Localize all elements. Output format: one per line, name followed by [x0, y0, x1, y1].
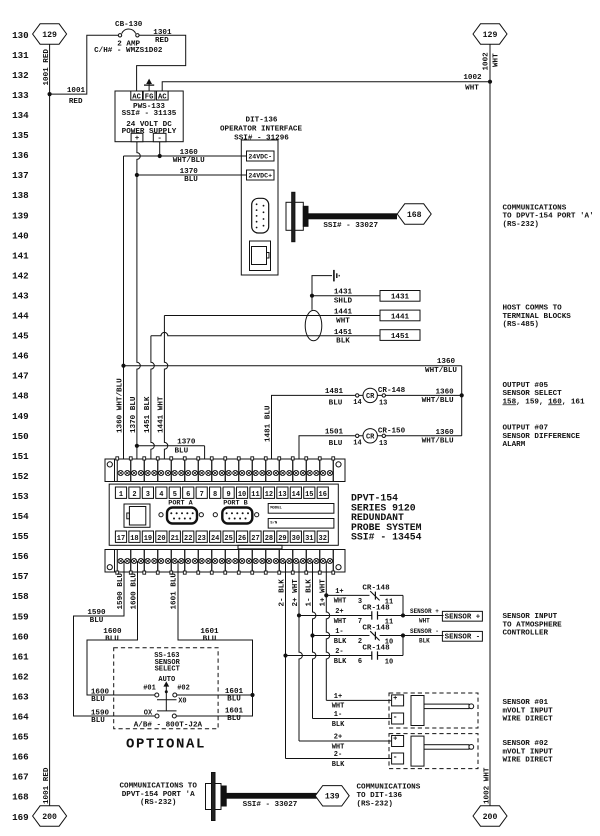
off-page reference hexagon 129 (top left) — [33, 24, 67, 44]
svg-text:4: 4 — [159, 491, 163, 499]
svg-text:145: 145 — [12, 331, 29, 342]
svg-text:CR-148: CR-148 — [362, 625, 390, 633]
terminal strip top (field wiring terminals 1-16) — [105, 459, 345, 482]
svg-text:-: - — [393, 713, 398, 722]
svg-text:CR-150: CR-150 — [378, 427, 406, 435]
svg-text:OPTIONAL: OPTIONAL — [126, 737, 206, 753]
svg-text:COMMUNICATIONS TO: COMMUNICATIONS TO — [119, 782, 197, 790]
svg-text:SSI# - 33027: SSI# - 33027 — [243, 801, 298, 809]
svg-text:167: 167 — [12, 772, 29, 783]
svg-text:158, 159, 160, 161: 158, 159, 160, 161 — [503, 398, 585, 406]
svg-text:SENSOR -: SENSOR - — [410, 628, 439, 635]
svg-text:RED: RED — [69, 98, 83, 106]
sensor #01 probe (mVolt wire direct) — [389, 693, 478, 728]
svg-text:1+: 1+ — [335, 588, 343, 596]
svg-text:1441: 1441 — [334, 309, 353, 317]
redundant probe system DPVT-154 outline — [109, 484, 338, 545]
svg-text:CB-130: CB-130 — [115, 21, 143, 29]
svg-text:BLK: BLK — [419, 637, 430, 644]
svg-text:A/B# - 800T-J2A: A/B# - 800T-J2A — [134, 721, 203, 729]
svg-text:BLK: BLK — [336, 338, 350, 346]
svg-text:CR-148: CR-148 — [378, 387, 406, 395]
svg-text:COMMUNICATIONS: COMMUNICATIONS — [357, 784, 421, 792]
svg-text:1431: 1431 — [334, 289, 353, 297]
svg-text:1002: 1002 — [482, 52, 490, 71]
svg-text:10: 10 — [385, 658, 393, 666]
svg-text:TO DIT-136: TO DIT-136 — [357, 792, 403, 800]
svg-text:(RS-232): (RS-232) — [503, 221, 539, 229]
svg-text:SENSOR #02: SENSOR #02 — [503, 740, 549, 748]
wire 1- BLK from terminal 31 (hops rungs 159,161) — [313, 561, 316, 719]
svg-text:161: 161 — [12, 651, 29, 662]
svg-text:CR: CR — [366, 433, 375, 441]
svg-text:BLU: BLU — [227, 715, 241, 723]
svg-text:2-: 2- — [334, 751, 342, 759]
terminal strip bottom (field wiring terminals 17-32) — [105, 550, 345, 573]
svg-text:14: 14 — [353, 440, 361, 448]
svg-text:136: 136 — [12, 150, 29, 161]
svg-text:25: 25 — [224, 535, 232, 543]
svg-text:1-: 1- — [334, 711, 342, 719]
chassis ground symbol — [333, 270, 335, 282]
svg-text:7: 7 — [200, 491, 204, 499]
svg-text:SENSOR INPUT: SENSOR INPUT — [503, 613, 558, 621]
DB9 port on DIT-136 — [252, 198, 269, 233]
svg-text:SSI# - 31135: SSI# - 31135 — [122, 110, 177, 118]
svg-text:1301: 1301 — [153, 29, 172, 37]
model nameplate box — [268, 504, 334, 514]
svg-text:20: 20 — [157, 535, 165, 543]
svg-text:169: 169 — [12, 812, 29, 823]
svg-text:144: 144 — [12, 311, 29, 322]
terminal FG of PWS-133 — [143, 91, 155, 100]
wire 1481 BLU from terminal 12 to relay CR-148 coil — [272, 395, 355, 470]
svg-text:WIRE DIRECT: WIRE DIRECT — [503, 716, 554, 724]
svg-text:#02: #02 — [177, 685, 190, 693]
wire 1451 BLK from terminal 3 to terminal block (hop over 1441) — [151, 332, 380, 335]
svg-text:1360: 1360 — [437, 358, 456, 366]
svg-text:155: 155 — [12, 531, 29, 542]
power supply PWS-133 outline — [115, 91, 183, 142]
svg-text:mVOLT INPUT: mVOLT INPUT — [503, 748, 554, 756]
svg-text:156: 156 — [12, 551, 29, 562]
optional dashed enclosure SS-163 — [114, 648, 218, 729]
svg-text:BLU: BLU — [227, 696, 241, 704]
svg-text:14: 14 — [292, 491, 300, 499]
ethernet jack on DPVT-154 — [124, 504, 150, 527]
svg-text:13: 13 — [278, 491, 286, 499]
off-page reference hexagon 200 (bottom right) — [473, 806, 507, 826]
svg-text:WHT: WHT — [332, 703, 345, 711]
RS-232 connector shell at DPVT-154 port A — [206, 784, 222, 810]
svg-text:140: 140 — [12, 230, 29, 241]
wire 1370 BLU branch to terminal 7 — [137, 445, 205, 447]
node junction 1002 on right bus — [488, 80, 492, 84]
svg-text:151: 151 — [12, 451, 29, 462]
operator interface DIT-136 outline — [241, 140, 278, 275]
svg-text:8: 8 — [213, 491, 217, 499]
terminal number boxes 1-16 — [115, 487, 126, 498]
svg-text:168: 168 — [12, 792, 29, 803]
svg-text:2: 2 — [132, 491, 136, 499]
svg-text:C/H# - WMZS1D02: C/H# - WMZS1D02 — [94, 47, 163, 55]
svg-text:154: 154 — [12, 511, 29, 522]
svg-text:165: 165 — [12, 732, 29, 743]
svg-text:1431: 1431 — [391, 294, 410, 302]
svg-text:WHT: WHT — [419, 617, 430, 624]
wire 1001 RED left bus — [49, 44, 51, 806]
svg-text:WHT: WHT — [493, 53, 501, 67]
svg-text:1451: 1451 — [391, 333, 410, 341]
wire 1370 BLU horizontal to DIT-136 24VDC+ — [137, 174, 247, 176]
svg-text:HOST COMMS TO: HOST COMMS TO — [503, 305, 563, 313]
wire 1301 RED from CB-130 to PWS-133 AC — [137, 35, 186, 91]
svg-text:TO DPVT-154 PORT 'A': TO DPVT-154 PORT 'A' — [503, 213, 594, 221]
svg-text:5: 5 — [173, 491, 177, 499]
wire 1431 SHLD with ground — [312, 276, 332, 310]
svg-text:(RS-232): (RS-232) — [140, 799, 176, 807]
svg-text:SENSOR +: SENSOR + — [410, 608, 439, 615]
rung 158 wire 1+ to CR-148 contact 3-11 (NC) — [324, 593, 328, 597]
svg-text:SHLD: SHLD — [334, 298, 353, 306]
wire 2- BLK from terminal 29 — [285, 561, 287, 759]
svg-text:21: 21 — [171, 535, 179, 543]
svg-text:27: 27 — [251, 535, 259, 543]
svg-text:142: 142 — [12, 270, 29, 281]
terminal number boxes 17-32 — [115, 531, 126, 542]
svg-text:9: 9 — [226, 491, 230, 499]
wire 2+ WHT from terminal 30 (hop rung 161) — [299, 561, 302, 741]
svg-text:SELECT: SELECT — [155, 666, 180, 674]
svg-text:SENSOR -: SENSOR - — [445, 633, 480, 641]
relay coil CR-150 — [355, 435, 462, 437]
svg-text:19: 19 — [144, 535, 152, 543]
svg-text:2+: 2+ — [334, 734, 342, 742]
serial number nameplate box — [268, 519, 334, 529]
off-page reference hexagon 168 (to DPVT-154 port A) — [397, 204, 431, 224]
svg-text:129: 129 — [42, 31, 57, 40]
svg-text:ALARM: ALARM — [503, 441, 526, 449]
svg-text:24VDC+: 24VDC+ — [248, 172, 272, 179]
svg-text:131: 131 — [12, 50, 29, 61]
wire 1501 BLU from terminal 14 to relay CR-150 coil — [299, 436, 355, 470]
svg-text:159: 159 — [12, 611, 29, 622]
svg-text:32: 32 — [319, 535, 327, 543]
svg-text:143: 143 — [12, 290, 29, 301]
svg-text:24VDC-: 24VDC- — [248, 153, 272, 160]
svg-text:WIRE DIRECT: WIRE DIRECT — [503, 757, 554, 765]
svg-text:CR-148: CR-148 — [362, 605, 390, 613]
circuit breaker CB-130 — [118, 34, 121, 37]
svg-text:1- BLK: 1- BLK — [306, 579, 314, 607]
svg-text:133: 133 — [12, 90, 29, 101]
svg-text:26: 26 — [238, 535, 246, 543]
svg-text:6: 6 — [358, 658, 362, 666]
svg-text:WHT/BLU: WHT/BLU — [422, 397, 454, 405]
svg-text:3: 3 — [146, 491, 150, 499]
svg-text:1370: 1370 — [177, 439, 196, 447]
wire 1002 WHT right bus — [489, 44, 491, 806]
wire 1360 vertical to relay coils — [461, 366, 463, 436]
svg-text:200: 200 — [42, 813, 57, 822]
rung number column 130-169 — [12, 30, 29, 823]
terminal box SENSOR - — [442, 631, 482, 641]
svg-text:SSI# - 31296: SSI# - 31296 — [234, 135, 289, 143]
svg-text:1441 WHT: 1441 WHT — [157, 396, 165, 433]
svg-text:1481 BLU: 1481 BLU — [265, 405, 273, 442]
wire 1360 WHT/BLU horizontal to DIT-136 24VDC- — [124, 155, 247, 157]
terminal block box 1431 — [380, 291, 420, 302]
svg-text:158: 158 — [12, 591, 29, 602]
mounting tab below DPVT-154 — [238, 545, 282, 549]
node junction 1370 branch to terminal 7 — [135, 444, 139, 448]
svg-text:130: 130 — [12, 30, 29, 41]
svg-text:AC: AC — [158, 93, 167, 101]
terminal - of PWS-133 — [153, 133, 166, 141]
svg-text:OUTPUT #07: OUTPUT #07 — [503, 425, 549, 433]
svg-text:AC: AC — [132, 93, 141, 101]
wire 1601 to selector switch X0 — [177, 694, 253, 696]
svg-text:200: 200 — [483, 813, 498, 822]
wire 1360 WHT/BLU vertical to terminal 1 — [123, 156, 125, 470]
svg-text:29: 29 — [278, 535, 286, 543]
svg-text:147: 147 — [12, 371, 29, 382]
selector switch mechanical linkage — [157, 699, 177, 701]
svg-text:OX: OX — [144, 710, 153, 718]
svg-text:BLU: BLU — [329, 399, 343, 407]
svg-text:(RS-232): (RS-232) — [357, 801, 393, 809]
svg-text:23: 23 — [197, 535, 205, 543]
svg-text:X0: X0 — [178, 698, 186, 706]
svg-text:17: 17 — [117, 535, 125, 543]
svg-text:CR-148: CR-148 — [362, 585, 390, 593]
svg-text:166: 166 — [12, 752, 29, 763]
svg-text:CONTROLLER: CONTROLLER — [503, 630, 549, 638]
svg-text:(RS-485): (RS-485) — [503, 321, 539, 329]
off-page reference hexagon 200 (bottom left) — [33, 806, 67, 826]
selector switch arm arrow (AUTO position) — [165, 685, 167, 692]
svg-text:1451 BLK: 1451 BLK — [144, 396, 152, 433]
svg-text:BLU: BLU — [184, 176, 198, 184]
svg-text:WHT: WHT — [334, 598, 347, 606]
svg-text:TERMINAL BLOCKS: TERMINAL BLOCKS — [503, 313, 572, 321]
svg-text:162: 162 — [12, 671, 29, 682]
RS-232 cable SSI# - 33027 to DPVT-154 port A — [308, 214, 397, 219]
svg-text:POWER SUPPLY: POWER SUPPLY — [122, 128, 177, 136]
off-page reference hexagon 139 (to DIT-136) — [315, 786, 349, 806]
wire join contacts 11 to SENSOR + — [402, 595, 404, 615]
svg-text:CR-148: CR-148 — [362, 645, 390, 653]
svg-text:12: 12 — [265, 491, 273, 499]
RS-232 connector shell at DIT-136 — [286, 202, 303, 230]
svg-text:1002 WHT: 1002 WHT — [484, 767, 492, 804]
svg-text:SENSOR #01: SENSOR #01 — [503, 699, 549, 707]
svg-text:COMMUNICATIONS: COMMUNICATIONS — [503, 204, 567, 212]
wire 1431 SHLD to terminal block — [312, 295, 380, 297]
svg-text:11: 11 — [251, 491, 259, 499]
rung 161 wire 2- to CR-148 contact 6-10 (NO) — [283, 653, 287, 657]
svg-text:10: 10 — [238, 491, 246, 499]
wire 1590 BLU from terminal 17 — [74, 561, 155, 716]
svg-text:135: 135 — [12, 130, 29, 141]
node junction 1360 at PWS minus — [158, 154, 162, 158]
svg-text:13: 13 — [379, 440, 387, 448]
svg-text:BLU: BLU — [105, 636, 119, 644]
terminal block box 1441 — [380, 310, 420, 321]
node junction 1360 branch — [121, 364, 125, 368]
svg-text:150: 150 — [12, 431, 29, 442]
svg-text:134: 134 — [12, 110, 29, 121]
svg-text:1360: 1360 — [435, 388, 454, 396]
wire 1360 WHT/BLU branch rung 146 — [124, 365, 462, 367]
svg-text:1600 BLU: 1600 BLU — [131, 573, 139, 610]
selector switch pole 2 contacts — [155, 714, 159, 718]
svg-text:22: 22 — [184, 535, 192, 543]
svg-text:1601 BLU: 1601 BLU — [171, 573, 179, 610]
wire 1600 BLU from terminal 18 — [87, 561, 155, 695]
wire 2- BLK to sensor #02 - — [286, 758, 392, 760]
svg-text:SENSOR DIFFERENCE: SENSOR DIFFERENCE — [503, 433, 581, 441]
svg-text:FG: FG — [145, 93, 154, 101]
svg-text:BLU: BLU — [329, 440, 343, 448]
svg-text:BLK: BLK — [332, 721, 345, 729]
wire 1370 BLU vertical from PWS + terminal to terminal 2 (hops 1360 and branch rows) — [137, 142, 140, 470]
svg-text:WHT: WHT — [465, 85, 479, 93]
terminal + of PWS-133 — [131, 133, 143, 141]
svg-text:OPERATOR INTERFACE: OPERATOR INTERFACE — [220, 126, 302, 134]
wire 1441 WHT from terminal 4 to terminal block — [164, 315, 380, 317]
svg-text:SENSOR SELECT: SENSOR SELECT — [503, 390, 563, 398]
svg-text:2+: 2+ — [335, 608, 343, 616]
svg-text:SSI# - 33027: SSI# - 33027 — [323, 222, 378, 230]
svg-text:DPVT-154 PORT 'A: DPVT-154 PORT 'A — [122, 791, 195, 799]
svg-text:WHT/BLU: WHT/BLU — [425, 367, 457, 375]
terminal 24VDC- of DIT-136 — [247, 151, 275, 161]
svg-text:1001 RED: 1001 RED — [43, 49, 51, 86]
node junction 1601 at switch row — [250, 693, 254, 697]
svg-text:24: 24 — [211, 535, 219, 543]
svg-text:WHT: WHT — [334, 618, 347, 626]
svg-text:148: 148 — [12, 391, 29, 402]
selector switch pole 1 contacts — [155, 693, 159, 697]
terminal 24VDC+ of DIT-136 — [247, 170, 275, 180]
wire 2+ WHT to sensor #02 + — [299, 740, 392, 742]
svg-text:149: 149 — [12, 411, 29, 422]
svg-text:163: 163 — [12, 691, 29, 702]
wire 1- BLK to sensor #01 - — [313, 718, 392, 720]
svg-text:-: - — [393, 753, 398, 762]
svg-text:137: 137 — [12, 170, 29, 181]
sensor #02 probe (mVolt wire direct) — [389, 734, 478, 769]
node junction 1370 branch to 24VDC+ — [135, 173, 139, 177]
svg-text:RED: RED — [155, 37, 169, 45]
svg-text:1451: 1451 — [334, 329, 353, 337]
svg-text:1-: 1- — [335, 628, 343, 636]
svg-text:MODEL: MODEL — [270, 506, 282, 510]
svg-text:138: 138 — [12, 190, 29, 201]
svg-text:28: 28 — [265, 535, 273, 543]
svg-text:BLU: BLU — [91, 717, 105, 725]
svg-text:1360 WHT/BLU: 1360 WHT/BLU — [117, 378, 125, 433]
svg-text:1360: 1360 — [435, 429, 454, 437]
relay coil CR-148 — [355, 394, 462, 396]
svg-text:SENSOR +: SENSOR + — [445, 613, 481, 621]
rung 159 wire 2+ to CR-148 contact 7-11 (NO) — [297, 613, 301, 617]
svg-text:141: 141 — [12, 250, 29, 261]
wire 1601 BLU from terminal 21 — [176, 561, 252, 716]
svg-text:30: 30 — [292, 535, 300, 543]
wire 1+ WHT from terminal 32 (hops rungs 159,160,161) — [326, 561, 329, 700]
svg-text:WHT: WHT — [336, 317, 350, 325]
svg-text:168: 168 — [407, 211, 422, 220]
svg-text:SSI# - 13454: SSI# - 13454 — [351, 532, 422, 543]
svg-text:WHT/BLU: WHT/BLU — [173, 157, 205, 165]
terminal block box 1451 — [380, 330, 420, 341]
svg-text:1+ WHT: 1+ WHT — [319, 579, 327, 607]
svg-text:BLK: BLK — [334, 638, 347, 646]
node junction shield to 1431 — [310, 294, 314, 298]
svg-text:13: 13 — [379, 400, 387, 408]
svg-text:1370 BLU: 1370 BLU — [130, 396, 138, 433]
svg-text:14: 14 — [353, 399, 361, 407]
svg-text:S/N: S/N — [270, 520, 278, 525]
svg-text:BLU: BLU — [203, 636, 217, 644]
svg-text:157: 157 — [12, 571, 29, 582]
svg-text:#01: #01 — [143, 685, 156, 693]
svg-text:DIT-136: DIT-136 — [246, 117, 278, 125]
svg-text:BLU: BLU — [91, 696, 105, 704]
node junction 1001 at rung 133 — [48, 92, 52, 96]
off-page reference hexagon 129 (top right) — [473, 24, 507, 44]
svg-text:OUTPUT #05: OUTPUT #05 — [503, 382, 549, 390]
svg-text:18: 18 — [130, 535, 138, 543]
wire 1+ WHT to sensor #01 + — [326, 699, 391, 701]
svg-text:CR: CR — [366, 393, 375, 401]
svg-text:mVOLT INPUT: mVOLT INPUT — [503, 707, 554, 715]
terminal box SENSOR + — [442, 611, 482, 621]
svg-text:31: 31 — [305, 535, 313, 543]
svg-text:15: 15 — [305, 491, 313, 499]
svg-text:1002: 1002 — [463, 74, 482, 82]
svg-text:1+: 1+ — [334, 693, 342, 701]
svg-text:1441: 1441 — [391, 313, 410, 321]
wire join contacts 10 to SENSOR - — [402, 636, 404, 656]
svg-text:1001: 1001 — [67, 87, 86, 95]
svg-text:+: + — [393, 735, 397, 743]
rung 160 wire 1- to CR-148 contact 2-10 (NC) — [310, 633, 314, 637]
svg-text:153: 153 — [12, 491, 29, 502]
svg-text:164: 164 — [12, 712, 29, 723]
wire stub from PWS - terminal to 1360 — [159, 142, 161, 156]
svg-text:WHT/BLU: WHT/BLU — [422, 437, 454, 445]
svg-text:TO ATMOSPHERE: TO ATMOSPHERE — [503, 621, 563, 629]
svg-text:BLK: BLK — [332, 761, 345, 769]
svg-text:129: 129 — [483, 31, 498, 40]
wire 1001 RED from bus to CB-130 — [50, 35, 119, 94]
svg-text:1590 BLU: 1590 BLU — [117, 573, 125, 610]
svg-text:146: 146 — [12, 351, 29, 362]
svg-text:WHT: WHT — [332, 743, 345, 751]
svg-text:+: + — [393, 695, 397, 703]
svg-text:152: 152 — [12, 471, 29, 482]
svg-text:132: 132 — [12, 70, 29, 81]
node junction at CR-148 coil return — [460, 393, 464, 397]
svg-text:16: 16 — [319, 491, 327, 499]
svg-text:139: 139 — [325, 793, 340, 802]
svg-text:2+ WHT: 2+ WHT — [292, 579, 300, 607]
svg-text:BLU: BLU — [174, 448, 188, 456]
svg-text:160: 160 — [12, 631, 29, 642]
